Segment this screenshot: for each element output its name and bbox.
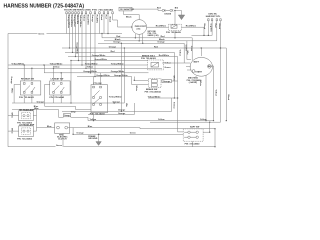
wire key switch right to relay: [147, 26, 169, 28]
wire branch 186.9: [187, 41, 191, 60]
wire key pin a: [134, 34, 136, 38]
wire bus orange/white 72.8: [44, 72, 149, 74]
node right-of-seat riser b: [70, 102, 71, 103]
wire bus red 48: [62, 47, 226, 49]
wire bus yellow 120.6: [88, 120, 214, 122]
rotated label white lamp1: [11, 113, 14, 120]
wire pin drop 5: [78, 14, 80, 61]
svg-text:Red/White: Red/White: [186, 25, 197, 28]
wire branch 184.2: [184, 43, 190, 63]
wire to ground: [174, 11, 182, 16]
engine circle U2: [190, 57, 212, 76]
wire seat2 pin up b: [60, 73, 62, 81]
wire clutch blue 127.6: [73, 128, 140, 129]
svg-text:Wht: Wht: [125, 103, 128, 107]
node orange bus: [114, 102, 115, 103]
RH seat switch S1: [19, 78, 41, 100]
svg-text:Green/White: Green/White: [95, 58, 108, 61]
svg-text:P/N: 725-04258: P/N: 725-04258: [90, 113, 106, 116]
wire frame ground bus 134.3: [73, 133, 183, 135]
node safety right: [209, 132, 210, 133]
svg-text:Orange/White: Orange/White: [92, 54, 106, 57]
wire clutch bottom: [62, 133, 64, 146]
node 120 c: [226, 120, 227, 121]
svg-text:Green/White: Green/White: [70, 15, 73, 28]
wire staircase mid: [45, 103, 91, 110]
wire 117.3: [71, 117, 88, 120]
wire engine left stub d: [187, 69, 192, 71]
wire lamp right riser: [33, 116, 36, 131]
svg-text:Orange/White: Orange/White: [96, 74, 110, 77]
wire DMC pin2: [211, 21, 213, 36]
svg-text:Orange: Orange: [113, 101, 121, 103]
svg-text:Orange: Orange: [37, 101, 45, 103]
svg-text:Black: Black: [203, 24, 205, 30]
svg-text:White: White: [172, 76, 175, 83]
rotated label yellow right: [178, 50, 180, 57]
wire brake2 right b: [172, 80, 178, 82]
svg-text:Orange: Orange: [76, 133, 84, 135]
wire bus yellow/white 65: [8, 64, 148, 66]
node box top b: [107, 33, 108, 34]
wire seat2 pin down a: [53, 95, 55, 103]
rotated label green staircase: [75, 42, 78, 54]
svg-text:Black: Black: [100, 15, 102, 21]
electric clutch M1: [55, 123, 70, 141]
svg-text:Green: Green: [56, 145, 63, 147]
DMC connector pins: [208, 19, 222, 21]
svg-text:DIODE: DIODE: [165, 14, 172, 16]
wire bus 122.2: [150, 121, 221, 123]
rotated label white left edge: [11, 88, 14, 93]
svg-text:Orange/White: Orange/White: [111, 70, 125, 73]
wire orange 115.6: [88, 114, 134, 116]
rotated label white near engine: [186, 51, 189, 55]
wire branch 177.6: [177, 57, 179, 132]
safety switch S6 dashed: [183, 125, 203, 145]
svg-text:Green: Green: [165, 67, 172, 69]
wire branch 171.7: [171, 98, 173, 111]
node engine top: [201, 47, 202, 48]
engine part number: [187, 77, 203, 85]
wire 128.7 to safety: [140, 128, 215, 130]
wire seat1 pin up b: [31, 68, 33, 81]
svg-text:Green: Green: [130, 133, 137, 135]
wire engine bottom stub b: [195, 76, 197, 83]
svg-text:Yellow: Yellow: [165, 62, 172, 64]
svg-text:Yellow/White: Yellow/White: [11, 62, 25, 65]
wire bus yellow/white 98: [148, 97, 178, 99]
svg-text:Yellow/White: Yellow/White: [79, 15, 82, 29]
svg-text:Orange/White: Orange/White: [75, 42, 78, 54]
svg-text:Orange: Orange: [118, 113, 126, 115]
ground symbol bottom: [96, 134, 101, 145]
wire pin drop 12: [107, 14, 109, 34]
rotated label orange left edge: [10, 77, 12, 85]
node 98 b: [177, 97, 178, 98]
svg-text:Yellow: Yellow: [178, 50, 180, 57]
PTO switch S3: [90, 83, 108, 116]
svg-text:Black: Black: [108, 17, 110, 23]
wire seat1 left exit: [14, 84, 20, 103]
svg-text:Orange/White: Orange/White: [67, 15, 70, 29]
svg-text:Black: Black: [126, 17, 132, 19]
wire brake right: [162, 62, 184, 64]
svg-text:Yellow/White: Yellow/White: [111, 62, 125, 65]
node bus35: [203, 35, 204, 36]
wire bus blue 109.5: [12, 109, 59, 111]
svg-text:P/N: 725-04439: P/N: 725-04439: [166, 31, 182, 34]
svg-text:HOUR METER/CONN. P/N: 725-0403: HOUR METER/CONN. P/N: 725-04034A: [64, 9, 114, 12]
orange boxed label clutch: [64, 114, 71, 117]
wire bus black 40.8: [104, 40, 217, 42]
svg-text:White: White: [11, 88, 14, 93]
wire brake2 feed 80.3: [134, 79, 148, 81]
wire bus 35.4 right: [192, 34, 213, 36]
DMC rotated labels: [203, 24, 220, 33]
wire bus red 37.8: [102, 38, 192, 61]
svg-text:Yellow: Yellow: [173, 102, 175, 109]
svg-text:P/N: 725-04363: P/N: 725-04363: [141, 57, 157, 60]
wire lamp2 left stub: [8, 130, 19, 132]
wire blue to clutch: [37, 127, 55, 129]
ground symbol top right: [178, 15, 184, 20]
wire pto pin up b: [100, 73, 102, 85]
svg-text:Yellow: Yellow: [87, 67, 94, 69]
wire lamp1 left stub: [8, 115, 19, 117]
svg-text:Yellow/White: Yellow/White: [109, 96, 123, 99]
diode label: [157, 8, 179, 16]
wire branch 174.4: [173, 52, 175, 98]
node bus35b: [208, 35, 209, 36]
wire bus orange 103: [12, 102, 124, 104]
svg-text:Green: Green: [190, 46, 192, 51]
wire branch 134.3 down: [133, 103, 135, 115]
wire bus orange/white 76.5: [77, 76, 132, 78]
rotated label yellow riser: [173, 102, 175, 109]
svg-text:Red/Wht: Red/Wht: [95, 15, 98, 24]
wire bus red 52.4: [65, 51, 174, 53]
node bottom right: [214, 146, 215, 147]
wire DMC pin3: [216, 21, 218, 41]
wire inter-seat riser: [44, 65, 46, 73]
wire bus green/white 60.5: [71, 60, 148, 62]
node 120 a: [205, 120, 206, 121]
wire safety riser: [209, 122, 211, 132]
hour meter connector pins: [66, 12, 114, 14]
wire pin drop 6: [81, 14, 83, 65]
node 98 a: [174, 97, 175, 98]
wire relay up branch: [174, 11, 176, 25]
wire right-of-seat riser: [70, 61, 72, 104]
svg-text:P/N: 725-04363A: P/N: 725-04363A: [145, 91, 162, 94]
svg-text:P/N: 725-04043: P/N: 725-04043: [19, 96, 35, 99]
wire pin drop 8: [90, 14, 92, 73]
rotated label wht pto right: [125, 103, 128, 107]
junction dots staircase: [69, 37, 221, 135]
RH headlamp L1: [17, 108, 35, 124]
svg-text:BATT: BATT: [194, 60, 200, 63]
wire safety bottom drop: [192, 141, 194, 147]
wire pto pin up a: [93, 77, 95, 85]
svg-text:Orange: Orange: [10, 77, 12, 85]
wire relay to right: [182, 27, 205, 35]
wire pin drop 7: [85, 14, 87, 69]
wire branch 131.6 into brake2: [132, 77, 149, 85]
brake switch 2 S5 dashed: [145, 79, 162, 94]
inline connector bullets: [162, 9, 173, 12]
wire safety left feed: [178, 131, 184, 133]
svg-text:Yellow/White: Yellow/White: [148, 95, 162, 98]
wire safety right feed: [203, 131, 210, 133]
hour meter connector label: [64, 9, 114, 12]
svg-text:Yellow/White: Yellow/White: [50, 62, 64, 65]
svg-text:HARNESS NUMBER (725-04847A): HARNESS NUMBER (725-04847A): [4, 3, 85, 9]
svg-text:Orange: Orange: [163, 81, 171, 83]
frame ground label: [88, 135, 98, 140]
svg-text:GROUND: GROUND: [88, 138, 98, 140]
rotated label grn/yel b: [190, 46, 192, 51]
svg-text:Black/Wht: Black/Wht: [86, 15, 89, 25]
wire adapter to diode line: [132, 9, 162, 10]
brake switch S4 dashed: [141, 54, 171, 70]
svg-text:Red/White: Red/White: [156, 25, 167, 28]
node ground tap: [98, 134, 99, 135]
svg-text:Orange/Red: Orange/Red: [73, 15, 75, 28]
svg-text:Orange: Orange: [109, 46, 117, 48]
wire pin drop 3: [72, 14, 74, 53]
wire bus orange/white 56.5: [68, 56, 178, 58]
svg-text:PWR PORT: PWR PORT: [135, 26, 147, 28]
rotated label grn/yel a: [185, 45, 187, 52]
rotated label yellow eng: [214, 90, 216, 97]
relay K1 dashed box: [169, 24, 182, 30]
wire pin drop 1: [66, 14, 68, 34]
wire seat2 left exit: [45, 84, 50, 103]
rotated label wht mid: [135, 86, 138, 93]
node safety riser: [209, 122, 210, 123]
wire branch long right: [225, 48, 227, 121]
wire branch 121.4: [120, 43, 122, 111]
wire pto pin down a: [93, 113, 95, 121]
node seat feeds: [24, 64, 62, 73]
svg-text:Yellow: Yellow: [214, 90, 216, 97]
rotated wire color labels under connector: [67, 15, 111, 29]
wire bus 37.8 stub: [101, 34, 103, 38]
svg-text:White: White: [135, 86, 138, 93]
wire engine top: [200, 48, 202, 56]
wire adapter down to key circle: [124, 11, 140, 20]
wire DMC pin4: [220, 21, 222, 122]
wire clutch right: [68, 128, 74, 135]
svg-text:P/N: 725-04043: P/N: 725-04043: [49, 96, 65, 99]
rotated label black far right: [227, 95, 229, 101]
wire DMC pin1: [207, 21, 209, 36]
node 120 b: [213, 120, 214, 121]
rotated label white lamp2: [11, 128, 14, 135]
wire pin drop 13: [113, 14, 132, 27]
wire gray 111.3: [62, 110, 172, 112]
key switch circle U1: [132, 20, 147, 35]
svg-text:Orange: Orange: [157, 42, 165, 44]
LH headlamp L2: [17, 124, 35, 141]
wire seat1 pin down a: [23, 95, 25, 103]
rotated label white right: [172, 76, 175, 83]
svg-text:HARVEST DPL: HARVEST DPL: [206, 15, 221, 18]
LH seat switch S2: [49, 78, 70, 100]
svg-text:Orange: Orange: [118, 110, 126, 112]
wire seat1 pin up a: [23, 65, 25, 81]
rotated label white eng: [199, 81, 202, 88]
junction dots on key circle drops: [135, 37, 144, 44]
harness outline big box: [8, 34, 56, 147]
svg-text:Orange: Orange: [113, 42, 121, 44]
DMC connector label: [206, 14, 221, 18]
wire branch 58.5 down: [59, 110, 64, 118]
svg-text:White/Blk: White/Blk: [76, 15, 79, 25]
wire key pin c: [142, 34, 144, 44]
svg-text:Red/White: Red/White: [159, 54, 170, 57]
svg-text:CLUTCH: CLUTCH: [58, 139, 67, 141]
svg-text:White: White: [199, 81, 202, 88]
node relay top branch: [174, 10, 175, 11]
svg-text:SAFT SW: SAFT SW: [190, 125, 199, 128]
wire seat1 pin down b: [31, 95, 33, 103]
harness bottom edge: [64, 146, 216, 148]
node right-of-seat riser: [70, 60, 71, 61]
node 128.7: [214, 128, 215, 129]
svg-text:Wht: Wht: [186, 51, 189, 55]
svg-text:START: START: [195, 71, 202, 74]
wire branch 134.3: [133, 77, 135, 81]
wire pto pin down b: [100, 113, 102, 115]
wire branch 124.4: [123, 48, 125, 103]
wire engine right MAG: [211, 66, 213, 121]
svg-text:(12V): (12V): [137, 28, 141, 30]
svg-text:P/N: 725-04363: P/N: 725-04363: [17, 137, 33, 140]
wire bus yellow 68.3: [8, 67, 162, 69]
wire blue riser top: [36, 108, 38, 116]
svg-text:Yellow: Yellow: [82, 15, 84, 22]
node box top a: [101, 33, 102, 34]
harness outline continued: [47, 33, 123, 35]
wire pin drop 10: [99, 14, 101, 34]
wire seat2 pin up a: [53, 68, 55, 81]
svg-text:Yellow/White: Yellow/White: [85, 62, 99, 65]
wire pin drop 9: [94, 14, 96, 77]
node key left: [131, 26, 132, 27]
wire pin drop 4: [75, 14, 77, 57]
svg-text:Yellow: Yellow: [158, 119, 165, 121]
svg-text:Black: Black: [218, 24, 220, 30]
wire safety right down: [214, 129, 216, 147]
key switch part number: [148, 31, 159, 37]
wire seat2 pin down b: [60, 95, 62, 103]
svg-text:Gray: Gray: [71, 112, 77, 114]
12V adapter boxed label: [119, 7, 135, 11]
svg-text:12V ADAPTER: 12V ADAPTER: [120, 8, 135, 11]
title: [4, 3, 85, 9]
svg-text:Green: Green: [38, 33, 45, 35]
svg-text:Black: Black: [227, 95, 229, 101]
svg-text:04228 (-30): 04228 (-30): [148, 34, 159, 37]
wire key pin b: [138, 34, 140, 40]
svg-text:Orange: Orange: [91, 15, 93, 23]
orange boxed label right of brake2: [162, 80, 172, 83]
wire brake2 right: [161, 80, 162, 82]
svg-text:Orange: Orange: [64, 115, 70, 117]
wire engine bottom: [205, 76, 207, 121]
wire relay bottom: [174, 30, 176, 37]
wire pin drop 11: [103, 14, 105, 34]
wire engine left stub c: [186, 66, 191, 68]
wire pin drop 2: [69, 14, 71, 48]
wire bus orange 43.3: [98, 42, 184, 44]
